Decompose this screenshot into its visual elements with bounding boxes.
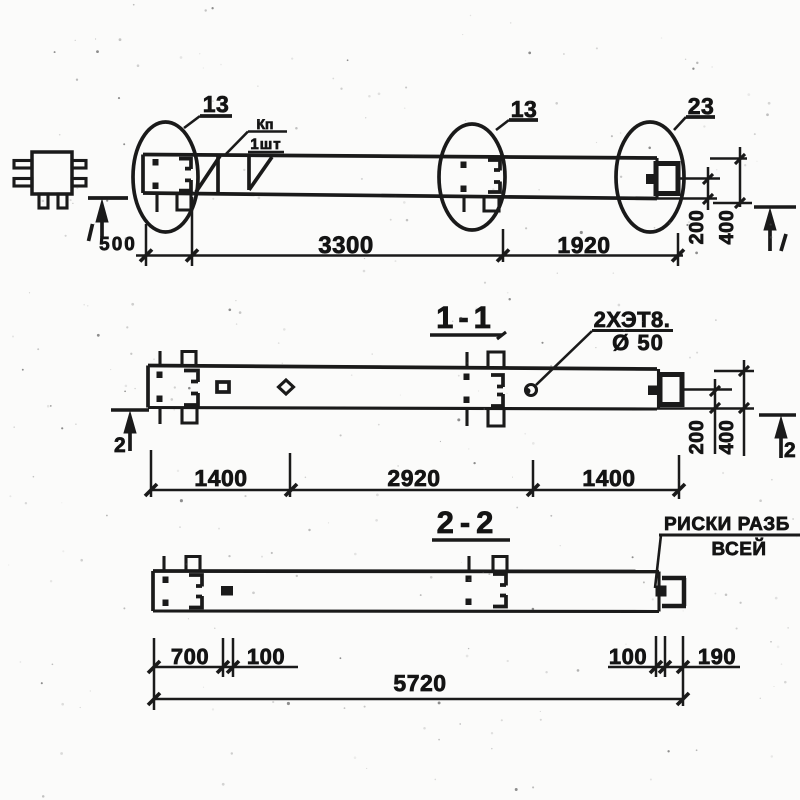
section cut mark 1 (right) — [754, 207, 796, 251]
top view beam outline — [143, 155, 657, 199]
svg-text:1-1: 1-1 — [436, 300, 496, 335]
svg-text:2ХЭТ8.: 2ХЭТ8. — [594, 307, 671, 332]
svg-text:13: 13 — [511, 96, 538, 122]
overall dimension 5720 — [154, 698, 683, 701]
stubs below beam left end (1-1) — [160, 408, 197, 424]
stubs below beam at left end — [157, 195, 191, 212]
column cross-section symbol (plan key) — [14, 152, 86, 208]
strand anchor circle with leader (1-1) — [525, 331, 593, 396]
dimension 200 (1-1 right) — [657, 379, 754, 454]
dimension row 1-1 — [151, 450, 679, 499]
deck element KP (parallelogram with dividers) — [196, 156, 272, 192]
section cut mark 1 (left) — [88, 198, 128, 241]
svg-text:РИСКИ РАЗБ: РИСКИ РАЗБ — [664, 514, 790, 535]
svg-text:200: 200 — [686, 420, 708, 455]
label 1sht — [248, 136, 284, 153]
dimension 400 (top view right) — [710, 147, 752, 207]
oval callout 13 (left) — [133, 122, 198, 232]
svg-text:100: 100 — [247, 644, 285, 669]
stubs above beam left end (1-1) — [160, 351, 196, 366]
svg-text:Ø 50: Ø 50 — [612, 330, 664, 355]
embedded plate marks middle (dots and angle brackets) — [461, 162, 466, 192]
svg-text:100: 100 — [609, 644, 647, 669]
tenon at right end (1-1) — [649, 375, 683, 405]
embedded marks left end (1-1) — [157, 372, 162, 402]
dimension 200 (top view right) — [657, 167, 720, 210]
svg-text:400: 400 — [716, 210, 738, 245]
small square opening (1-1) — [217, 382, 229, 392]
section cut mark 2 (left, 1-1) — [111, 410, 149, 457]
svg-text:ВСЕЙ: ВСЕЙ — [711, 537, 766, 560]
embedded plate marks left end (dots and angle brackets) — [153, 160, 158, 189]
tenon at right end (top view) — [647, 164, 679, 194]
svg-text:200: 200 — [686, 210, 708, 245]
dimension ticks (top view) — [140, 250, 684, 262]
embedded marks middle (1-1) — [464, 374, 469, 403]
section title 1-1 — [430, 300, 506, 339]
section 1-1 beam outline — [148, 366, 659, 410]
embedded marks middle (2-2) — [466, 576, 471, 605]
oval callout 13 (middle) — [439, 124, 505, 230]
stubs above beam left end (2-2) — [164, 556, 200, 572]
label RISKI RAZB with leader — [655, 514, 800, 588]
label 23 with leader — [674, 93, 715, 130]
svg-text:13: 13 — [203, 91, 230, 117]
svg-text:2-2: 2-2 — [437, 505, 500, 540]
svg-text:190: 190 — [698, 644, 736, 669]
svg-text:2: 2 — [784, 439, 796, 462]
stubs below beam middle (1-1) — [467, 409, 504, 426]
dimension 400 (1-1 right) — [714, 360, 754, 456]
svg-text:5720: 5720 — [393, 670, 446, 696]
svg-text:500: 500 — [99, 234, 137, 255]
label 13 left with leader — [184, 91, 232, 128]
section cut mark 2 (right, 1-1) — [759, 415, 796, 462]
label 2xET8 — [592, 307, 673, 332]
svg-text:1400: 1400 — [582, 465, 635, 491]
svg-text:Кп: Кп — [256, 116, 273, 132]
svg-text:400: 400 — [716, 420, 738, 455]
embedded marks left end (2-2) — [163, 577, 168, 606]
dimension 500 (top view) — [99, 234, 137, 255]
stubs above beam middle (1-1) — [467, 352, 504, 368]
svg-text:1400: 1400 — [194, 465, 247, 491]
top view dimension line — [136, 197, 683, 266]
section 2-2 beam outline — [153, 571, 659, 612]
tenon with axis marks at right end (2-2) — [656, 578, 686, 606]
stubs below beam at middle — [464, 197, 499, 212]
svg-text:3300: 3300 — [318, 232, 373, 259]
svg-text:2: 2 — [114, 434, 126, 457]
svg-text:700: 700 — [171, 644, 209, 669]
label 13 middle with leader — [496, 96, 538, 130]
stubs above beam middle (2-2) — [469, 556, 507, 572]
svg-text:23: 23 — [688, 93, 715, 119]
dimension row 1 (2-2) — [154, 636, 740, 710]
filled square mark (2-2) — [221, 586, 233, 596]
svg-text:1920: 1920 — [557, 232, 610, 258]
oval callout 23 (right) — [616, 122, 684, 232]
svg-text:1шт: 1шт — [250, 136, 281, 153]
svg-text:2920: 2920 — [387, 465, 440, 491]
section title 2-2 — [432, 505, 510, 540]
label Kp with leader — [226, 116, 287, 154]
diamond lifting-hole mark (1-1) — [279, 380, 294, 394]
